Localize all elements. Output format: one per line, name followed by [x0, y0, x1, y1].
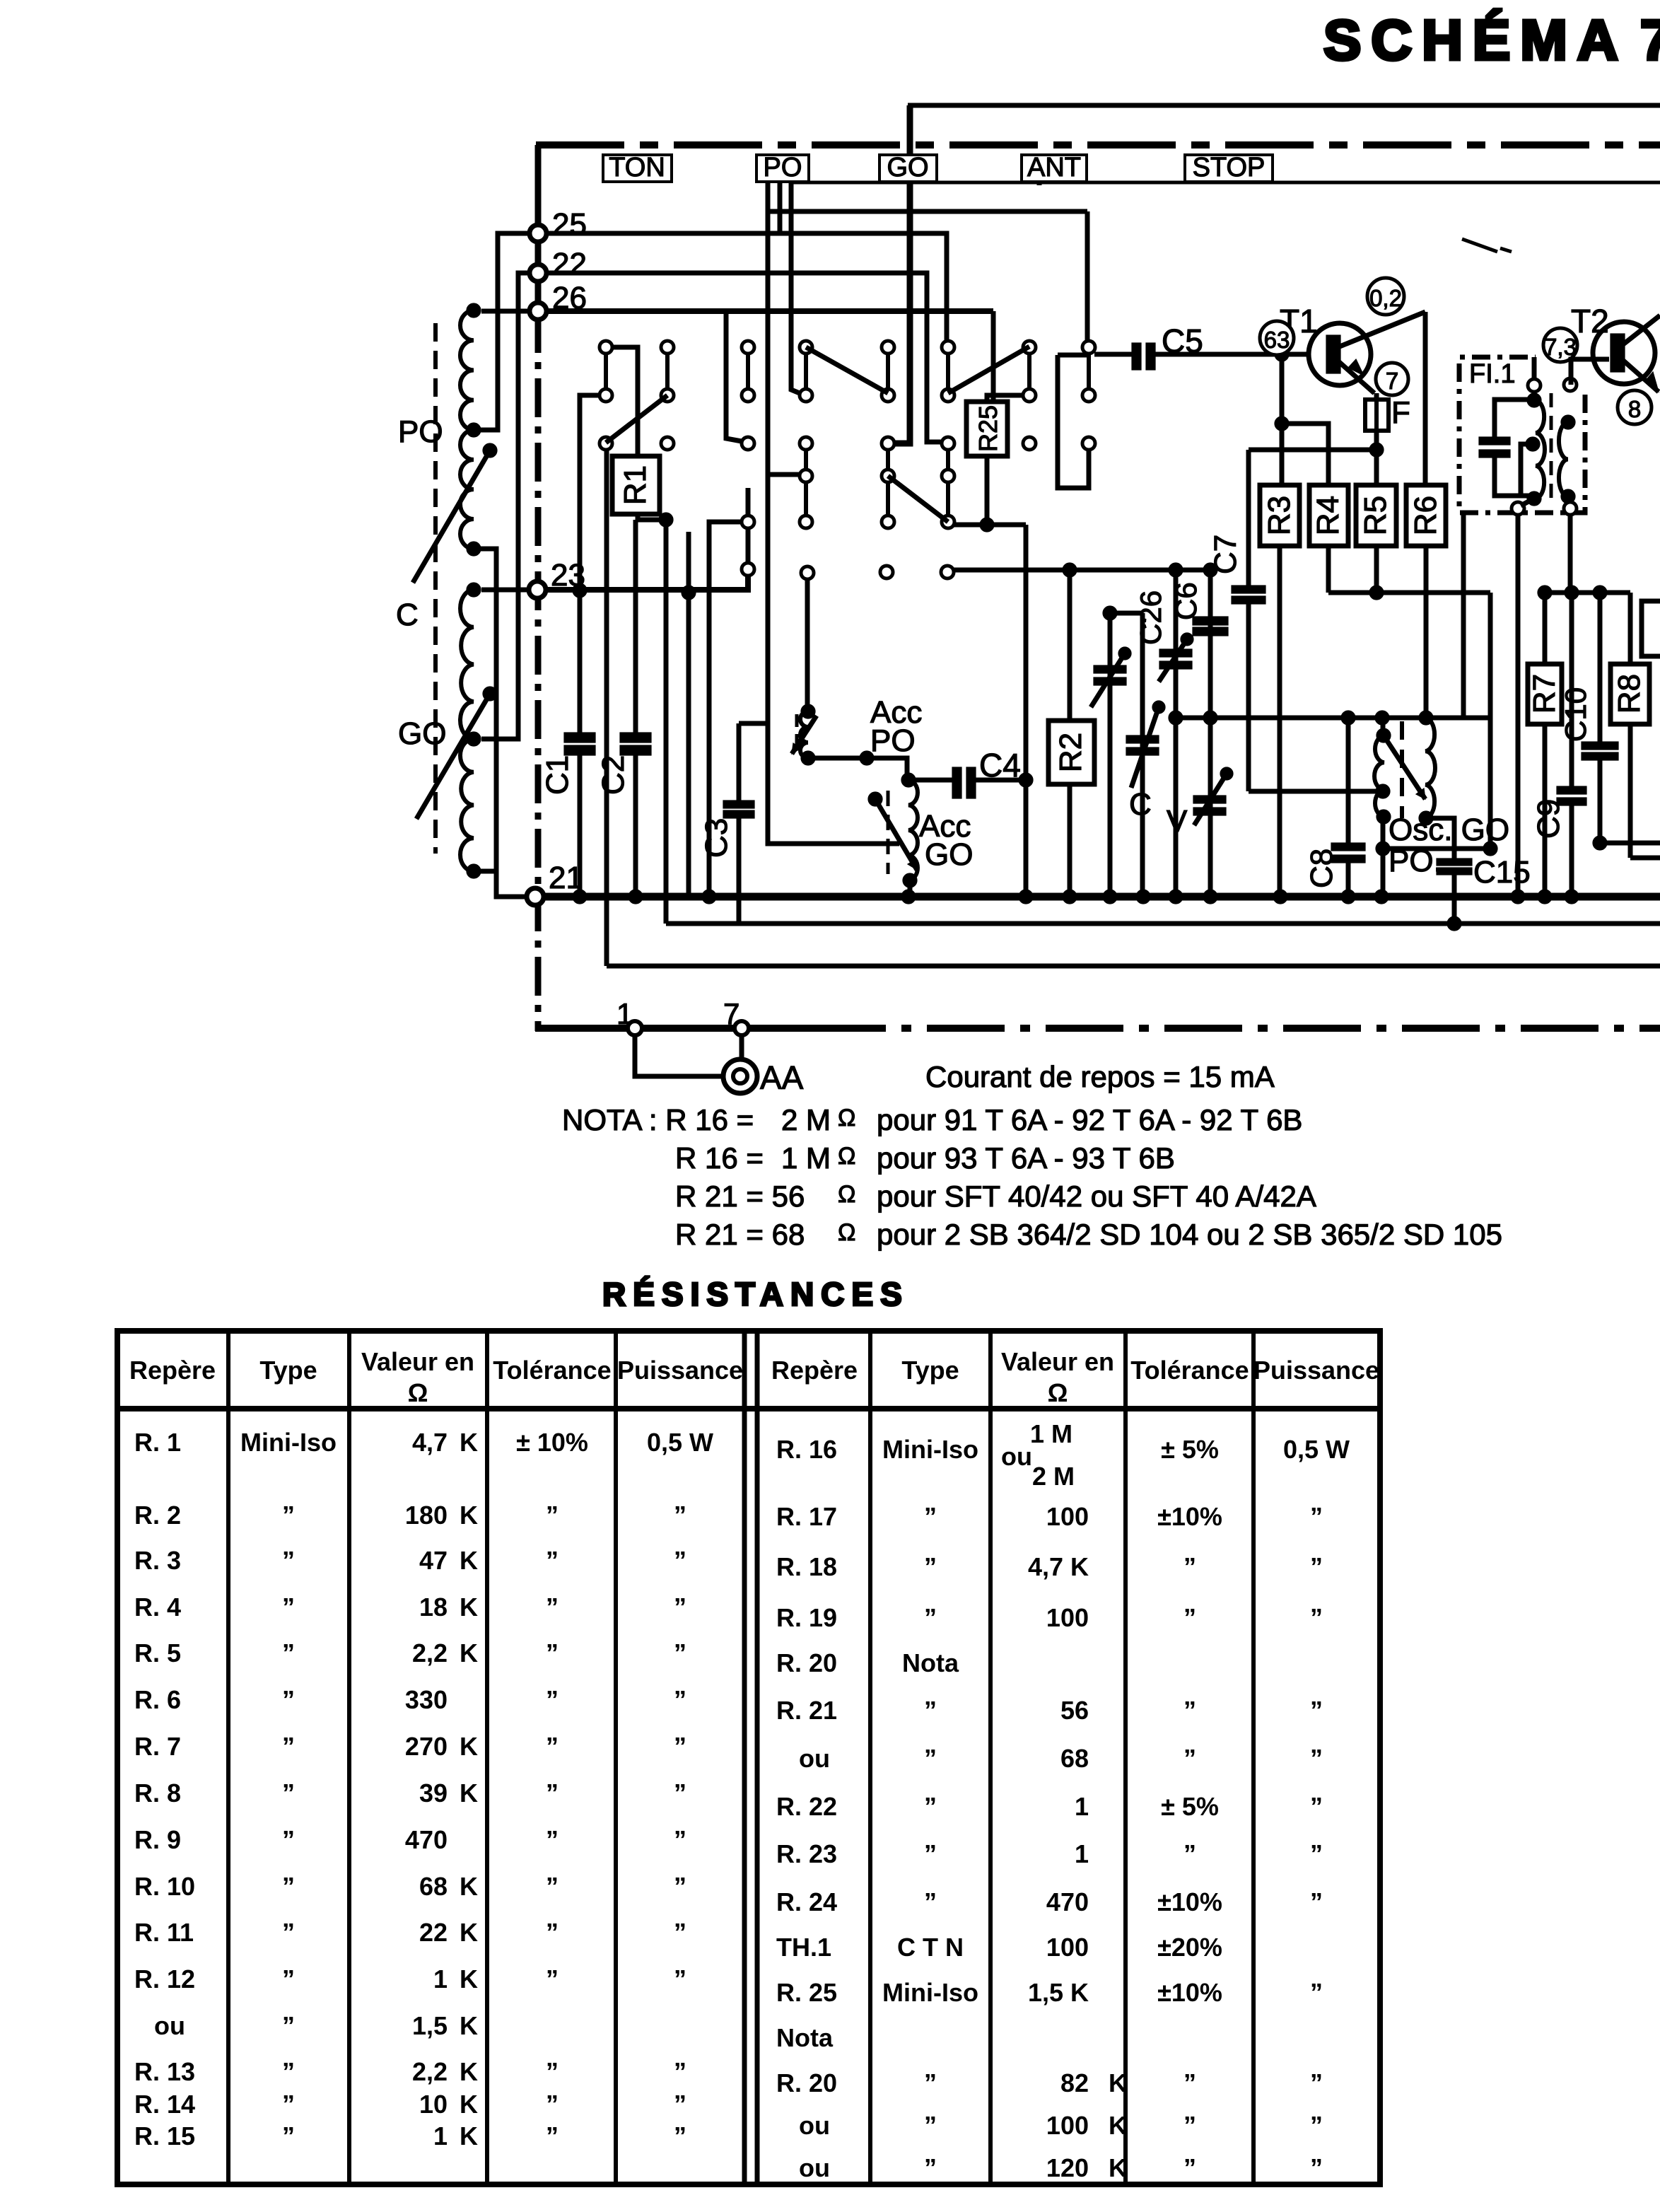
svg-text:± 5%: ± 5%: [1161, 1435, 1219, 1464]
wire x=1570: [1108, 613, 1113, 897]
svg-text:”: ”: [674, 1825, 686, 1854]
wire C2 bottom: [633, 755, 638, 897]
svg-text:K: K: [460, 1428, 478, 1457]
node 26: [530, 303, 546, 320]
wire C1 top lead: [578, 590, 583, 733]
switch arm diagonal 3: [606, 395, 667, 443]
svg-text:2,2: 2,2: [412, 1638, 448, 1667]
svg-text:R5: R5: [1358, 496, 1393, 535]
svg-text:”: ”: [924, 1744, 937, 1773]
svg-text:”: ”: [674, 2121, 686, 2150]
svg-text:”: ”: [924, 1792, 937, 1821]
svg-text:”: ”: [674, 1638, 686, 1667]
switch contact (1142,810): [801, 566, 814, 579]
wire contact to C1: [580, 395, 600, 590]
wire drop to R25 top: [991, 311, 996, 400]
node 22: [530, 264, 546, 281]
wire y=1015 rail: [1176, 716, 1490, 721]
svg-text:ou: ou: [799, 2153, 830, 2182]
wire trimmer jumper: [1110, 611, 1141, 616]
pin bubble 7,3: [1543, 328, 1577, 362]
junction C10 top: [1593, 586, 1607, 600]
junction osc left top: [1375, 711, 1389, 725]
svg-text:TH.1: TH.1: [776, 1933, 831, 1962]
resistances table: [117, 1331, 1380, 2184]
svg-text:”: ”: [924, 2153, 937, 2182]
svg-text:100: 100: [1046, 1603, 1089, 1632]
wire R5 bottom: [1374, 546, 1379, 593]
svg-text:1: 1: [1075, 1792, 1089, 1821]
junction C1 top: [573, 583, 587, 598]
svg-text:C15: C15: [1473, 855, 1531, 890]
junction C6 top: [1203, 563, 1217, 577]
svg-text:”: ”: [1183, 1696, 1196, 1725]
svg-text:Mini-Iso: Mini-Iso: [240, 1428, 337, 1457]
junction T1 base: [1275, 347, 1289, 361]
junction bus x=2147: [1511, 890, 1525, 904]
svg-text:R. 9: R. 9: [134, 1825, 181, 1854]
switch contact (1341,627): [942, 437, 954, 450]
wire C8 bottom lead: [1346, 863, 1351, 897]
svg-text:”: ”: [1310, 2068, 1323, 2097]
svg-text:R6: R6: [1408, 496, 1443, 535]
svg-text:”: ”: [546, 1964, 559, 1993]
svg-text:ou: ou: [799, 1744, 830, 1773]
svg-text:”: ”: [1183, 1552, 1196, 1581]
svg-text:C: C: [1129, 787, 1152, 822]
svg-text:Puissance: Puissance: [1253, 1356, 1379, 1385]
svg-text:”: ”: [1310, 1744, 1323, 1773]
switch contact (1341,738): [942, 516, 954, 528]
wire PO box stub: [778, 182, 783, 233]
svg-text:R7: R7: [1527, 674, 1562, 714]
svg-text:C T N: C T N: [897, 1933, 964, 1962]
junction FI a: [1527, 393, 1541, 407]
junction C9 top: [1565, 586, 1579, 600]
svg-text:R. 3: R. 3: [134, 1546, 181, 1575]
switch contact (1140,491): [800, 341, 812, 354]
svg-text:Ω: Ω: [838, 1181, 855, 1208]
junction GO tap: [467, 732, 481, 746]
wire osc left bottom to bus: [1381, 817, 1386, 897]
coil PO winding lower: [460, 430, 474, 549]
capacitor C9: [1557, 786, 1586, 794]
wire contact to C5: [1094, 352, 1132, 357]
svg-text:”: ”: [1310, 2111, 1323, 2140]
switch contact (1341,673): [942, 470, 954, 482]
resistor R3: [1260, 485, 1299, 546]
coil GO winding lower: [460, 739, 474, 871]
wire contact link: [886, 482, 890, 516]
wire x=1616: [1140, 613, 1145, 897]
svg-text:”: ”: [1310, 2153, 1323, 2182]
svg-text:C6: C6: [1169, 582, 1203, 620]
junction bus x=1451: [1019, 890, 1033, 904]
capacitor C3: [723, 801, 754, 808]
svg-text:±10%: ±10%: [1157, 1502, 1222, 1531]
svg-text:”: ”: [924, 1603, 937, 1632]
svg-text:R. 18: R. 18: [776, 1552, 837, 1581]
junction x=974 on node23 line: [682, 586, 696, 600]
svg-text:R. 20: R. 20: [776, 2068, 837, 2097]
svg-text:8: 8: [1628, 396, 1641, 422]
node 21: [527, 888, 544, 905]
wire FI cap top: [1495, 400, 1530, 437]
wire R6 bottom to osc coil: [1424, 546, 1429, 718]
junction R2 top: [1063, 563, 1077, 577]
junction Acc coil bottom: [903, 873, 917, 887]
svg-text:”: ”: [282, 1638, 295, 1667]
switch contact (1140,559): [800, 389, 812, 402]
svg-text:”: ”: [282, 2057, 295, 2086]
svg-text:”: ”: [1183, 2111, 1196, 2140]
svg-text:K: K: [460, 2090, 478, 2119]
svg-text:GO: GO: [887, 153, 928, 182]
wire drop x=1027 to contact: [726, 311, 742, 441]
wire C7 bottom: [1246, 604, 1251, 791]
junction PO tap: [467, 423, 481, 437]
svg-text:C8: C8: [1304, 849, 1339, 888]
wire node23 right to contact: [546, 575, 748, 590]
capacitor C5: [1132, 343, 1141, 370]
wire contact link: [1087, 354, 1091, 389]
svg-text:22: 22: [552, 247, 587, 281]
svg-text:”: ”: [924, 1887, 937, 1916]
svg-text:R. 15: R. 15: [134, 2121, 195, 2150]
wire C1 bottom: [578, 755, 583, 897]
svg-text:PO: PO: [870, 723, 916, 758]
svg-text:63: 63: [1264, 327, 1290, 353]
switch arm diagonal 2: [948, 347, 1029, 393]
switch contact (944,559): [661, 389, 674, 402]
capacitor C4: [952, 767, 961, 798]
wire to C4: [908, 778, 952, 783]
wire contact link: [804, 354, 808, 389]
junction C26 top: [1169, 563, 1183, 577]
wire contact link: [804, 450, 808, 470]
svg-text:R. 19: R. 19: [776, 1603, 837, 1632]
svg-text:”: ”: [674, 1685, 686, 1714]
junction Acc PO coil top: [801, 704, 815, 718]
svg-text:”: ”: [546, 1918, 559, 1947]
wire contact link: [886, 450, 890, 470]
svg-text:Ω: Ω: [1048, 1378, 1068, 1407]
dashed antenna rod line: [433, 323, 438, 854]
resistor R9 partial: [1642, 601, 1660, 656]
trimmer capacitor C26: [1159, 649, 1192, 657]
junction osc right bottom: [1419, 811, 1433, 825]
svg-text:± 5%: ± 5%: [1161, 1792, 1219, 1821]
svg-text:”: ”: [1310, 1696, 1323, 1725]
wire C9 top lead: [1570, 593, 1574, 786]
resistor R8: [1611, 664, 1649, 724]
svg-text:”: ”: [924, 1552, 937, 1581]
coil Acc PO: [800, 711, 808, 758]
resistor R25: [966, 402, 1007, 456]
wire y=1200: [1383, 846, 1490, 851]
svg-text:”: ”: [674, 1593, 686, 1622]
svg-text:120: 120: [1046, 2153, 1089, 2182]
svg-text:pour 91 T 6A - 92 T 6A - 92 T: pour 91 T 6A - 92 T 6A - 92 T 6B: [877, 1103, 1302, 1136]
svg-text:7: 7: [723, 997, 740, 1030]
wire node7 to AA: [740, 1035, 744, 1060]
svg-text:pour 2 SB 364/2 SD 104 ou 2 SB: pour 2 SB 364/2 SD 104 ou 2 SB 365/2 SD …: [877, 1218, 1502, 1251]
svg-text:”: ”: [1183, 2068, 1196, 2097]
svg-text:Ω: Ω: [838, 1143, 855, 1170]
junction FI c: [1527, 491, 1541, 506]
svg-text:100: 100: [1046, 1502, 1089, 1531]
svg-text:”: ”: [546, 1732, 559, 1761]
wire FI top stub: [1532, 357, 1537, 380]
svg-text:”: ”: [674, 2090, 686, 2119]
wire contact link: [946, 450, 950, 470]
junction trimmer: [1103, 606, 1117, 620]
wire FI br: [1568, 496, 1570, 503]
switch contact (1256,491): [882, 341, 894, 354]
svg-text:”: ”: [674, 2057, 686, 2086]
wire contact link: [886, 354, 890, 389]
svg-text:NOTA : R 16 =: NOTA : R 16 =: [562, 1103, 754, 1136]
wire contact link: [946, 482, 950, 516]
wire T1 collector to R6: [1423, 312, 1428, 485]
wire PO bottom to GO bottom: [474, 549, 496, 871]
svg-text:”: ”: [282, 1501, 295, 1530]
svg-text:4,7: 4,7: [412, 1428, 448, 1457]
switch contact (857,491): [600, 341, 612, 354]
wire FI mid tap return: [1521, 444, 1533, 496]
trimmer capacitor CV a: [1094, 665, 1126, 673]
adjust arrow oscillator: [1384, 735, 1425, 799]
trimmer capacitor CV c: [1193, 796, 1226, 803]
wire lower rail 1: [666, 921, 1660, 926]
junction C10 rail: [1593, 836, 1607, 850]
svg-text:”: ”: [1310, 1552, 1323, 1581]
capacitor C7: [1232, 586, 1266, 593]
svg-text:R. 14: R. 14: [134, 2090, 195, 2119]
svg-text:Ω: Ω: [838, 1105, 855, 1131]
switch contact (1058,805): [742, 563, 754, 576]
switch contact (1140,738): [800, 516, 812, 528]
switch contact (1140,673): [800, 470, 812, 482]
wire FI bottom left to bus: [1516, 514, 1521, 897]
svg-text:”: ”: [1310, 1887, 1323, 1916]
wire C4 right: [976, 778, 1026, 783]
svg-text:”: ”: [546, 2121, 559, 2150]
wire bottom border solid part: [535, 1025, 808, 1032]
svg-text:PO: PO: [398, 414, 443, 449]
svg-text:GO: GO: [398, 716, 446, 751]
wire y=1192 to edge: [1600, 841, 1660, 846]
switch contact (1456,627): [1023, 437, 1036, 450]
wire C5 to T1 base: [1155, 352, 1309, 357]
coil PO winding upper: [460, 310, 474, 430]
svg-text:”: ”: [282, 1964, 295, 1993]
junction C8 top: [1341, 711, 1355, 725]
svg-text:±20%: ±20%: [1157, 1933, 1222, 1962]
svg-text:18: 18: [419, 1593, 448, 1622]
wire base down to R3: [1280, 354, 1285, 485]
switch contact (1540,559): [1082, 389, 1095, 402]
svg-text:K: K: [460, 1872, 478, 1901]
svg-text:Tolérance: Tolérance: [1130, 1356, 1249, 1385]
wire R25 top to contact: [987, 395, 1024, 402]
svg-text:100: 100: [1046, 1933, 1089, 1962]
svg-text:7: 7: [1386, 368, 1398, 394]
svg-text:470: 470: [1046, 1887, 1089, 1916]
switch contact (857,559): [600, 389, 612, 402]
svg-text:2,2: 2,2: [412, 2057, 448, 2086]
svg-text:PO.: PO.: [1389, 844, 1442, 878]
switch contact (1256,673): [882, 470, 894, 482]
svg-text:PO: PO: [764, 153, 802, 182]
svg-text:AA: AA: [760, 1059, 804, 1096]
svg-text:”: ”: [674, 1546, 686, 1575]
wire y=838 right section: [1545, 590, 1630, 595]
wire R4 bottom: [1326, 546, 1331, 593]
svg-text:”: ”: [674, 1732, 686, 1761]
junction FI b: [1526, 437, 1540, 451]
resistor R4: [1309, 485, 1348, 546]
svg-text:R. 1: R. 1: [134, 1428, 181, 1457]
wire C10 bottom lead: [1598, 760, 1603, 843]
wire F to R5: [1374, 431, 1379, 485]
junction bus x=899: [629, 890, 643, 904]
svg-text:Ω: Ω: [408, 1378, 428, 1407]
switch contact (1256,627): [882, 437, 894, 450]
svg-text:± 10%: ± 10%: [516, 1428, 588, 1457]
svg-text:R. 21: R. 21: [776, 1696, 837, 1725]
capacitor C2: [620, 733, 651, 743]
switch contact (1058,559): [742, 389, 754, 402]
svg-text:FI.1: FI.1: [1469, 359, 1515, 389]
svg-text:R 16 =: R 16 =: [675, 1141, 764, 1175]
junction osc left bottom: [1376, 810, 1391, 824]
svg-text:K: K: [460, 2011, 478, 2040]
junction R5 rail: [1369, 586, 1384, 600]
switch contact (1340,809): [941, 566, 954, 578]
svg-text:K: K: [460, 1732, 478, 1761]
adjust arrow GO core: [416, 694, 490, 819]
svg-text:R. 22: R. 22: [776, 1792, 837, 1821]
wire C3 bottom: [737, 818, 742, 924]
svg-text:180: 180: [405, 1501, 448, 1530]
svg-text:Type: Type: [259, 1356, 317, 1385]
svg-text:RÉSISTANCES: RÉSISTANCES: [602, 1276, 909, 1312]
wire contact link: [946, 354, 950, 389]
wire osc to C15: [1426, 818, 1454, 858]
filter FI.1 dashed box: [1459, 357, 1585, 513]
pin bubble 63: [1260, 321, 1294, 355]
wire node22 to GO coil tap: [481, 273, 530, 739]
junction y1200 right: [1483, 842, 1497, 856]
junction R1 rail: [659, 513, 673, 527]
node 25: [530, 225, 546, 242]
svg-text:7,3: 7,3: [1544, 334, 1577, 360]
terminal FI.1 bottom right: [1564, 502, 1577, 515]
svg-text:”: ”: [1183, 2153, 1196, 2182]
junction PO top: [467, 303, 481, 318]
svg-text:1,5 K: 1,5 K: [1028, 1978, 1089, 2007]
junction y1200 left: [1376, 842, 1390, 856]
svg-text:”: ”: [1183, 1603, 1196, 1632]
svg-text:270: 270: [405, 1732, 448, 1761]
svg-text:R. 17: R. 17: [776, 1502, 837, 1531]
junction bus x=1907: [1341, 890, 1355, 904]
resistor R1: [612, 456, 660, 514]
junction osc right top: [1419, 711, 1433, 725]
terminal FI.1 top left: [1528, 379, 1541, 392]
wire C3 top: [737, 723, 742, 801]
wire R8 top lead: [1628, 593, 1633, 664]
junction bus x=1513: [1063, 890, 1077, 904]
svg-text:39: 39: [419, 1779, 448, 1808]
svg-text:”: ”: [546, 1546, 559, 1575]
svg-text:R. 4: R. 4: [134, 1593, 181, 1622]
wire R25 bottom: [985, 456, 990, 525]
junction bus x=1954: [1374, 890, 1389, 904]
switch contact (1058,491): [742, 341, 754, 354]
svg-text:Repère: Repère: [771, 1356, 858, 1385]
switch contact (1456,491): [1023, 341, 1036, 354]
transistor T1: [1309, 323, 1371, 385]
wire y=806 rail: [953, 568, 1210, 573]
svg-text:1 M: 1 M: [1030, 1419, 1072, 1448]
svg-text:ANT: ANT: [1027, 153, 1081, 182]
wire main bottom bus: [544, 893, 1660, 901]
wire contact link: [804, 482, 808, 516]
label box TON: [603, 155, 672, 182]
label box PO: [756, 155, 809, 182]
wire node1 to AA: [635, 1035, 723, 1076]
pin bubble 7: [1376, 363, 1408, 395]
dashed Acc PO core: [795, 714, 799, 754]
switch contact (1456,559): [1023, 389, 1036, 402]
dashed osc core: [1400, 721, 1404, 818]
switch contact (1058,738): [742, 516, 754, 528]
junction R7 top: [1538, 586, 1552, 600]
coil GO winding upper: [460, 590, 474, 739]
wire riser x=858: [604, 449, 609, 966]
wire contact link: [746, 354, 750, 389]
wire y=838 left section: [1328, 590, 1490, 595]
svg-text:”: ”: [674, 1918, 686, 1947]
svg-text:4,7 K: 4,7 K: [1028, 1552, 1089, 1581]
svg-text:”: ”: [674, 1779, 686, 1808]
wire R7 bottom lead: [1543, 724, 1548, 897]
svg-text:25: 25: [552, 207, 587, 242]
junction Acc PO coil bottom: [801, 751, 815, 765]
wire FI cap bottom: [1495, 458, 1530, 496]
svg-text:Repère: Repère: [129, 1356, 216, 1385]
svg-text:1 M: 1 M: [781, 1141, 831, 1175]
switch contact (857,627): [600, 437, 612, 450]
svg-text:Mini-Iso: Mini-Iso: [882, 1978, 978, 2007]
trimmer capacitor CV b: [1126, 735, 1159, 743]
wire x=1451 to bus: [1024, 525, 1029, 897]
svg-text:”: ”: [282, 1825, 295, 1854]
svg-text:”: ”: [282, 1779, 295, 1808]
junction bus x=1003: [702, 890, 716, 904]
junction bus x=1285: [901, 890, 916, 904]
wire PO box stub 2: [766, 182, 771, 211]
wire C6 branch: [1208, 570, 1213, 897]
svg-text:K: K: [460, 2057, 478, 2086]
wire bus under switch labels y=258: [789, 181, 1660, 185]
svg-text:”: ”: [1310, 1603, 1323, 1632]
svg-text:”: ”: [546, 1501, 559, 1530]
wire Acc coil to bus: [908, 880, 913, 897]
svg-text:56: 56: [1060, 1696, 1089, 1725]
